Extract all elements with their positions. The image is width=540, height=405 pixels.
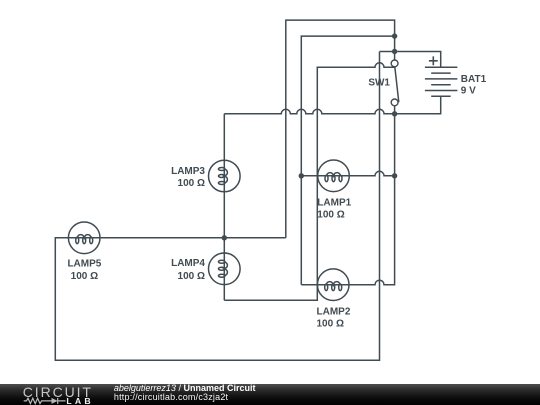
svg-text:SW1: SW1 [368,78,390,89]
svg-text:9 V: 9 V [461,86,476,97]
svg-text:LAMP1: LAMP1 [317,198,351,209]
wire LAMP4-bottom run y=300.3, riser x=317.3, run y=67.3 to switch top (hop at 379.5) [224,63,394,300]
svg-text:100 Ω: 100 Ω [71,271,98,282]
CircuitLab logo wordmark LAB [66,396,93,405]
lamp LAMP4 (vertical) [209,253,241,285]
CircuitLab logo resistor-diode art [23,396,67,405]
lamp LAMP1 [318,160,350,192]
lamp LAMP3 (vertical) [209,160,241,192]
svg-text:LAMP5: LAMP5 [67,259,101,270]
node dot at switch-bottom/battery-minus junction [392,111,397,116]
lamp LAMP2 [317,269,349,301]
lamp LAMP5 (horizontal) [68,222,100,254]
switch SW1 [391,60,399,106]
wire LAMP1 horizontal run y=175.8 (hop at 379.5) [301,171,394,175]
battery plus sign [429,56,438,65]
node dot at switch-top/battery-plus tee [392,49,397,54]
footer bar [0,384,540,405]
svg-text:LAMP3: LAMP3 [171,166,205,177]
node dot LAMP3/LAMP4/LAMP5 tee [222,235,227,240]
svg-text:100 Ω: 100 Ω [178,178,205,189]
svg-text:100 Ω: 100 Ω [317,210,344,221]
wire x=301.3 riser with top run y=36.1 to switch-top node [301,36,394,285]
junction dots [222,33,398,240]
svg-text:100 Ω: 100 Ω [178,271,205,282]
svg-text:LAMP4: LAMP4 [171,258,205,269]
footer credit line [114,383,256,393]
wire battery plus: y=51.5 run and battery top lead [380,52,441,68]
footer url line [114,392,228,402]
node dot LAMP1 left tee [299,173,304,178]
svg-text:BAT1: BAT1 [461,74,487,85]
CircuitLab logo wordmark CIRCUIT [23,384,93,400]
svg-text:LAMP2: LAMP2 [317,307,351,318]
wire LAMP5 run y=237.8, left drop x=55.3, bottom run y=360.3, riser x=379.5 [55,52,379,361]
battery BAT1 plates [425,67,458,96]
wire LAMP2 run y=284.7 (hop at 379.5) and riser x=394.6 to switch bottom [301,106,394,285]
svg-text:100 Ω: 100 Ω [317,319,344,330]
node dot at switch-top/x301 tee [392,33,397,38]
wire outer-top loop: node B riser x=285.8, top run y=20.1, switch-top riser x=394.6 [286,20,395,238]
node dot LAMP1 right tee [392,173,397,178]
wire vertical through LAMP3 and LAMP4 x=224.3 [223,114,225,300]
wire battery minus run y=113.8 with hops at 285.8,301.3,317.3,379.5 and battery bottom lead [224,96,440,114]
